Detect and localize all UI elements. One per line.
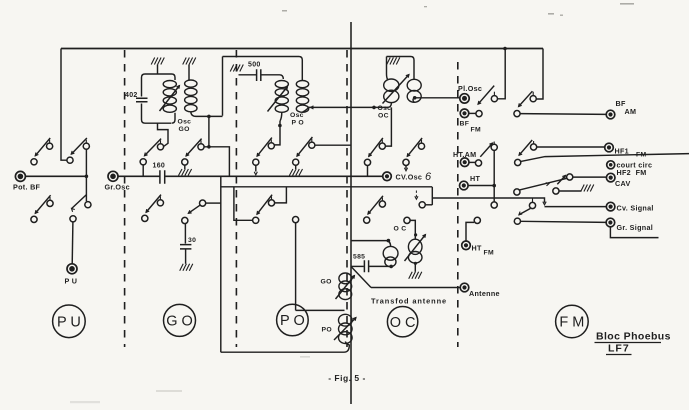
svg-text:P O: P O: [280, 313, 305, 329]
wire court-circuit line: [521, 154, 689, 162]
switch S22 (PU row2 left, floating): [31, 195, 53, 222]
separator PO/OC: [346, 50, 348, 347]
wire S10 contact to box top: [275, 187, 287, 203]
switch S20 (ground rotor): [553, 175, 566, 194]
svg-text:O C: O C: [390, 315, 416, 331]
coil PO antenna: [339, 314, 353, 343]
terminal Pot.BF: [13, 171, 41, 191]
capacitor 585: [351, 254, 391, 273]
switch S7 (GO row2 right) rotor-down style: [182, 200, 206, 224]
terminal CV.Osc: [383, 171, 432, 183]
wire OC antenna feed: [351, 239, 391, 247]
wire right drop from top bus to FM contact: [537, 49, 543, 100]
wire S4 pivot stem to bus: [142, 165, 144, 176]
wire HT FM up to contact: [466, 222, 474, 241]
label GO antenna coil: [321, 279, 332, 286]
terminal Antenne: [460, 283, 500, 298]
wire CAV: [573, 176, 607, 178]
ground G3 (S5 to chassis on bus): [179, 165, 192, 175]
wire OC tank bottom node: [374, 103, 391, 107]
switch S8 (PO row1 left): [253, 138, 275, 166]
switch S16 (HT.AM rotor): [469, 142, 497, 167]
wire shield box top rail: [221, 186, 432, 188]
wire antenna cap to ground: [414, 263, 416, 272]
coil OC antenna: [383, 246, 398, 268]
wire link GO secondary to switch row: [207, 116, 211, 148]
label PO antenna coil: [322, 327, 332, 334]
node PO pickup contact: [293, 217, 299, 223]
capacitor variable antenna OC: [408, 233, 422, 265]
svg-text:HF2 FM: HF2 FM: [617, 168, 647, 177]
arrow tuning antenna OC: [405, 235, 426, 262]
svg-text:30: 30: [188, 237, 196, 244]
label OC antenna coil: [394, 226, 407, 233]
svg-text:OC: OC: [378, 113, 389, 120]
switch S12 (OC row1 right): [403, 138, 425, 165]
svg-text:P O: P O: [292, 120, 305, 127]
arrow tuning slug PO: [268, 87, 288, 112]
ground G4 (below capacitor 30): [180, 264, 193, 271]
wire OC row2 contact to jog: [425, 204, 432, 206]
capacitor 500: [248, 62, 261, 82]
terminal HT.AM: [453, 150, 476, 167]
switch S6 (GO row2 left, floating): [142, 195, 164, 222]
switch S21 (Gr.Signal rotor): [514, 209, 530, 225]
wire top bus: [61, 47, 543, 51]
svg-text:HT: HT: [472, 244, 482, 253]
node Cv.Signal contact: [529, 198, 535, 208]
terminal Pl.Osc: [458, 84, 482, 103]
node OC var-cap contact: [404, 217, 410, 223]
wire PU lead: [71, 222, 74, 264]
switch S13 (OC row2 left, floating): [364, 196, 386, 223]
svg-text:O C: O C: [394, 226, 407, 233]
coil GO secondary winding: [185, 80, 197, 116]
band circle GO: [164, 304, 196, 336]
svg-text:160: 160: [153, 163, 166, 170]
ground G2 (GO secondary top): [183, 58, 196, 80]
svg-text:Osc: Osc: [178, 119, 192, 126]
wire capacitor 500 to PO coil: [261, 75, 283, 79]
svg-text:500: 500: [248, 62, 261, 69]
terminal HT FM: [462, 241, 494, 257]
wire left drop from top bus: [61, 49, 67, 161]
svg-text:Bloc Phoebus: Bloc Phoebus: [596, 331, 671, 343]
svg-text:FM: FM: [471, 127, 481, 134]
terminal CAV: [606, 173, 630, 188]
svg-text:Transfod antenne: Transfod antenne: [371, 297, 447, 306]
wire antenna line: [371, 287, 460, 289]
capacitor 160 in main bus: [153, 163, 166, 184]
wire Cv.Signal lead: [545, 206, 607, 208]
wire capacitor 30 to ground: [185, 249, 187, 264]
band circle FM: [556, 305, 589, 338]
ground G7 (OC tank top): [387, 58, 400, 65]
terminal HT: [460, 174, 481, 190]
coil Osc OC winding: [407, 79, 421, 102]
wire main bus left segment (Pot.BF to switch column): [25, 175, 88, 179]
ground G5 (trimmer hatch on separator): [230, 65, 243, 72]
svg-text:BF: BF: [460, 121, 470, 128]
switch S4 (GO row1 left): [140, 139, 164, 165]
switch S2 (PU row1 right): [67, 138, 90, 163]
svg-text:Pot. BF: Pot. BF: [13, 183, 41, 192]
terminal Cv.Signal: [606, 202, 653, 212]
ground G1 (GO tank top): [151, 58, 164, 75]
capacitor 30: [180, 237, 196, 249]
caption Fig 5: [328, 373, 366, 383]
separator PU/GO: [124, 50, 126, 347]
label Osc OC: [378, 105, 392, 120]
svg-text:FM: FM: [484, 250, 494, 257]
wire S9 contact to center line: [315, 144, 351, 146]
wire S7 pivot to capacitor 30: [184, 224, 186, 244]
band circle OC: [387, 307, 417, 337]
svg-text:Cv. Signal: Cv. Signal: [617, 204, 654, 213]
wire S5 contact to PO tank left: [204, 147, 229, 177]
wire Gr.Signal: [521, 221, 606, 222]
node HT FM contact: [474, 217, 480, 223]
wire shield box feed to S10 pivot: [234, 187, 253, 221]
svg-text:PO: PO: [322, 327, 332, 334]
switch S19 (CAV shorting bar): [514, 174, 573, 195]
svg-text:402: 402: [125, 92, 138, 99]
svg-text:P U: P U: [65, 277, 78, 286]
wire GO tank bottom jog to contact: [158, 123, 169, 146]
terminal court circ HF2 FM: [607, 161, 653, 178]
arrow tuning PO antenna: [334, 318, 356, 341]
capacitor 402 with GO tank outline: [125, 74, 171, 123]
title Bloc Phoebus: [595, 331, 671, 355]
wire ground to capacitor 500: [239, 74, 257, 76]
svg-text:CAV: CAV: [615, 179, 631, 188]
label Osc GO: [178, 119, 192, 134]
wire drop from top bus to Pl.Osc contact: [498, 49, 506, 99]
terminal PU: [65, 264, 78, 286]
wire main bus (Gr.Osc to capacitor 160): [118, 175, 160, 177]
ground G9 (FM bank): [581, 185, 594, 192]
terminal BF FM: [460, 109, 483, 134]
svg-text:Antenne: Antenne: [469, 289, 500, 298]
paper specks: [70, 3, 634, 403]
svg-text:P U: P U: [57, 315, 81, 331]
ground G8 (antenna cap): [409, 272, 422, 279]
svg-text:G O: G O: [166, 314, 193, 330]
svg-text:Gr. Signal: Gr. Signal: [617, 223, 654, 232]
wire PO secondary to OC tank node: [309, 106, 376, 110]
wire PO coil drop to contact: [275, 121, 282, 145]
switch S9 (PO row1 right): [293, 137, 315, 165]
wire Cv.Signal feed: [432, 198, 546, 205]
svg-text:F M: F M: [559, 315, 584, 331]
svg-text:LF7: LF7: [608, 343, 630, 355]
ground G6 (S9 to chassis on bus): [289, 165, 302, 175]
band circle PO: [277, 304, 309, 336]
svg-text:GO: GO: [179, 126, 190, 133]
switch S5 (GO row1 right): [182, 139, 204, 165]
switch S14 contact (OC row2 right): [419, 202, 425, 208]
switch S10 (PO row2): [253, 195, 275, 224]
wire OC tank top: [387, 57, 415, 80]
svg-text:- Fig. 5 -: - Fig. 5 -: [328, 373, 366, 383]
node FM lower contact: [491, 202, 497, 208]
wire HF1: [537, 146, 605, 148]
wire S2 contact drop across bus: [85, 149, 87, 201]
wire S11 pivot stem to bus: [367, 166, 369, 177]
wire shield box bottom: [221, 342, 349, 353]
svg-text:Osc: Osc: [290, 112, 304, 119]
svg-text:HF1: HF1: [615, 147, 629, 156]
node PU contact: [70, 216, 76, 222]
wire to chassis: [559, 190, 581, 192]
coil Osc GO primary winding: [158, 74, 177, 123]
band circle PU: [53, 305, 86, 338]
svg-text:Pl.Osc: Pl.Osc: [458, 84, 482, 93]
wire main bus (capacitor 160 to CV.Osc): [165, 175, 382, 177]
wire center axis line: [350, 22, 352, 404]
arrow tuning slug GO: [160, 86, 180, 112]
annotation arrow small: [415, 191, 418, 200]
terminal BF AM: [606, 99, 636, 119]
svg-text:Gr.Osc: Gr.Osc: [105, 183, 130, 192]
separator OC/FM: [457, 62, 459, 347]
svg-text:GO: GO: [321, 279, 332, 286]
terminal HF1 FM: [605, 143, 647, 158]
wire OC coil to Pl.Osc: [415, 97, 461, 99]
svg-text:AM: AM: [625, 107, 637, 116]
wire BF AM: [520, 113, 606, 116]
wire HT to column: [468, 185, 494, 187]
svg-text:CV.Osc: CV.Osc: [396, 173, 423, 182]
svg-text:6: 6: [425, 171, 432, 183]
arrow tuning OC: [383, 75, 410, 104]
switch S17 (BF AM rotor): [514, 91, 536, 117]
switch S11 (OC row1 left): [364, 138, 385, 166]
capacitor variable Osc OC: [384, 74, 399, 103]
label Transfod antenne: [371, 297, 447, 306]
terminal Gr.Osc: [105, 171, 130, 191]
wire S12 pivot stub: [404, 166, 407, 171]
svg-text:585: 585: [353, 254, 365, 261]
wire shield box left side: [220, 176, 222, 352]
switch arm S15 (Pl.Osc rotor): [478, 86, 498, 105]
separator GO/PO: [235, 50, 237, 347]
switch S1 (PU row1 left, floating pair): [31, 138, 53, 165]
coil GO antenna: [339, 273, 352, 300]
wire Gr.Signal return: [610, 227, 658, 238]
label Osc PO: [290, 112, 304, 127]
wire PO pickup lead: [295, 223, 297, 311]
switch arm S3 (PU row2 rotor): [72, 195, 92, 212]
coil Osc PO primary winding: [275, 81, 288, 122]
wire OC cap drop to switch contact: [385, 107, 391, 146]
wire GO secondary to PO tank: [196, 115, 223, 119]
terminal Gr.Signal: [606, 218, 653, 232]
wire S8 pivot stem arrow to bus: [254, 165, 257, 175]
wire PO tank top and left side: [223, 57, 303, 116]
wire contact to antenna trimmer: [410, 220, 415, 239]
wire diagonal to antenna line: [351, 266, 371, 287]
wire FM feed column: [492, 150, 496, 201]
svg-text:HT.AM: HT.AM: [453, 150, 476, 159]
switch S18 (HF1 rotor): [515, 140, 537, 166]
coil PO secondary winding: [296, 81, 308, 113]
wire S7 contact to shield box: [206, 202, 221, 204]
wire PO band circle to coil tap: [296, 309, 345, 311]
svg-text:Osc: Osc: [378, 105, 392, 112]
arrow tuning GO antenna: [336, 276, 355, 300]
node Pl.Osc junction: [413, 96, 417, 100]
svg-text:HT: HT: [470, 174, 480, 183]
wire box jog right side: [431, 187, 433, 205]
